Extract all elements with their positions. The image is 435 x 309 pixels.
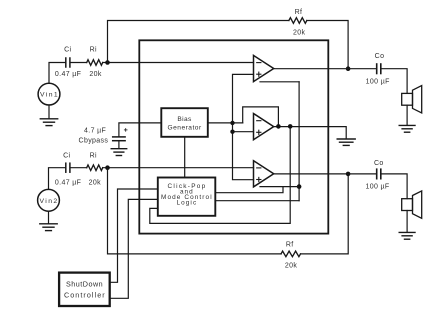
- svg-text:4.7 µF: 4.7 µF: [84, 128, 106, 135]
- svg-text:Vin2: Vin2: [40, 198, 58, 205]
- svg-text:Vin1: Vin1: [40, 92, 58, 99]
- svg-text:Cbypass: Cbypass: [79, 138, 109, 145]
- svg-text:100 µF: 100 µF: [366, 79, 390, 86]
- svg-text:Bias: Bias: [177, 116, 192, 123]
- svg-text:20k: 20k: [285, 263, 297, 270]
- svg-text:Ci: Ci: [64, 47, 71, 54]
- svg-text:0.47 µF: 0.47 µF: [55, 71, 81, 78]
- svg-text:Rf: Rf: [286, 241, 294, 248]
- svg-text:Ri: Ri: [90, 153, 97, 160]
- svg-text:Logic: Logic: [177, 199, 197, 206]
- svg-text:Generator: Generator: [168, 125, 202, 132]
- svg-text:20k: 20k: [89, 71, 101, 78]
- svg-text:Controller: Controller: [64, 290, 105, 299]
- svg-text:Ri: Ri: [90, 47, 97, 54]
- svg-text:Co: Co: [374, 160, 384, 167]
- svg-text:100 µF: 100 µF: [365, 184, 389, 191]
- svg-text:ShutDown: ShutDown: [66, 279, 103, 288]
- svg-text:20k: 20k: [293, 30, 305, 37]
- svg-text:20k: 20k: [89, 180, 101, 187]
- svg-text:Rf: Rf: [295, 9, 303, 16]
- svg-text:Ci: Ci: [63, 153, 70, 160]
- svg-text:Co: Co: [375, 53, 385, 60]
- svg-text:0.47 µF: 0.47 µF: [55, 180, 81, 187]
